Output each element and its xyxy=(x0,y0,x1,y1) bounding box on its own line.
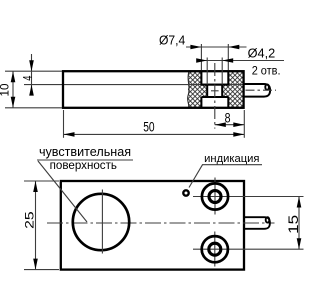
thin level line y=84.6 (4 mm step, crosses body) xyxy=(24,84,201,86)
svg-text:8: 8 xyxy=(225,110,231,126)
svg-text:поверхность: поверхность xyxy=(50,159,117,172)
svg-text:4: 4 xyxy=(20,76,35,81)
sensor body side view outline xyxy=(63,71,244,108)
svg-text:50: 50 xyxy=(143,119,155,135)
counterbore recess top (O7.4) xyxy=(201,71,228,84)
section break wavy line xyxy=(188,72,190,108)
dimension 10 (left height) xyxy=(5,70,62,72)
connector end cap ellipse (side view) xyxy=(265,84,269,89)
connector (bottom view) xyxy=(244,217,270,229)
mounting hole top: counterbore O7.4 xyxy=(202,183,228,209)
svg-text:2 отв.: 2 отв. xyxy=(252,63,281,77)
svg-text:Ø4,2: Ø4,2 xyxy=(248,46,276,61)
section hatch (local cut) xyxy=(188,72,244,108)
leader line to circle center xyxy=(38,161,87,222)
mounting hole bottom: counterbore O7.4 xyxy=(202,236,228,262)
connector end cap ellipse (bottom view) xyxy=(266,217,270,222)
mounting hole top: through hole O4.2 xyxy=(209,191,221,203)
leader underline (sensitive surface) xyxy=(37,159,133,161)
through hole (O4.2) section walls xyxy=(201,85,228,97)
mounting hole top: centerlines xyxy=(193,196,304,198)
hole center cross dash (section) xyxy=(211,90,219,92)
LED indicator dot xyxy=(183,190,188,195)
dimension 8 (axis to edge) xyxy=(243,110,245,138)
mounting hole bottom: centerlines xyxy=(193,248,304,250)
dimension 15 (hole spacing) xyxy=(298,197,300,250)
sensitive surface vertical centerline xyxy=(101,190,103,254)
dimension 50 (body length) xyxy=(63,110,65,138)
svg-text:Ø7,4: Ø7,4 xyxy=(159,33,185,48)
svg-text:индикация: индикация xyxy=(204,153,259,165)
main horizontal centerline xyxy=(47,222,275,224)
sensitive surface circle xyxy=(73,194,129,250)
dimension O7,4 (counterbore) xyxy=(186,46,247,48)
leader line to LED xyxy=(189,165,203,188)
leader shelf under индикация xyxy=(202,164,262,166)
counterbore recess bottom (O7.4) xyxy=(201,97,228,108)
svg-text:чувствительная: чувствительная xyxy=(39,145,131,159)
svg-text:15: 15 xyxy=(286,214,301,233)
dimension 4 (step depth) xyxy=(31,54,33,94)
hole axis centerline (side view) xyxy=(214,63,216,129)
svg-text:10: 10 xyxy=(0,83,11,96)
sensor body bottom view outline xyxy=(61,181,244,270)
dimension O4,2 2 holes xyxy=(197,60,284,62)
connector (side view) xyxy=(244,84,271,97)
svg-text:25: 25 xyxy=(22,211,36,229)
dimension 25 (body width) xyxy=(24,180,59,182)
connector centerline (side view) xyxy=(246,89,277,91)
mounting hole bottom: through hole O4.2 xyxy=(209,243,221,255)
